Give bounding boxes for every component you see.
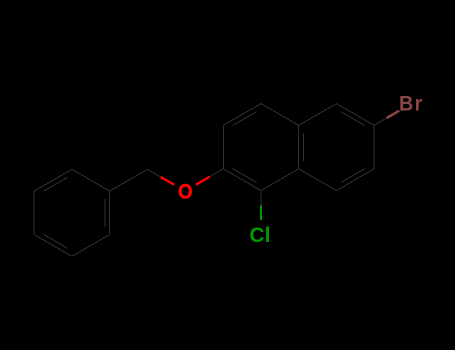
svg-text:Br: Br <box>399 92 424 116</box>
svg-text:Cl: Cl <box>249 223 270 247</box>
svg-text:O: O <box>178 180 192 204</box>
